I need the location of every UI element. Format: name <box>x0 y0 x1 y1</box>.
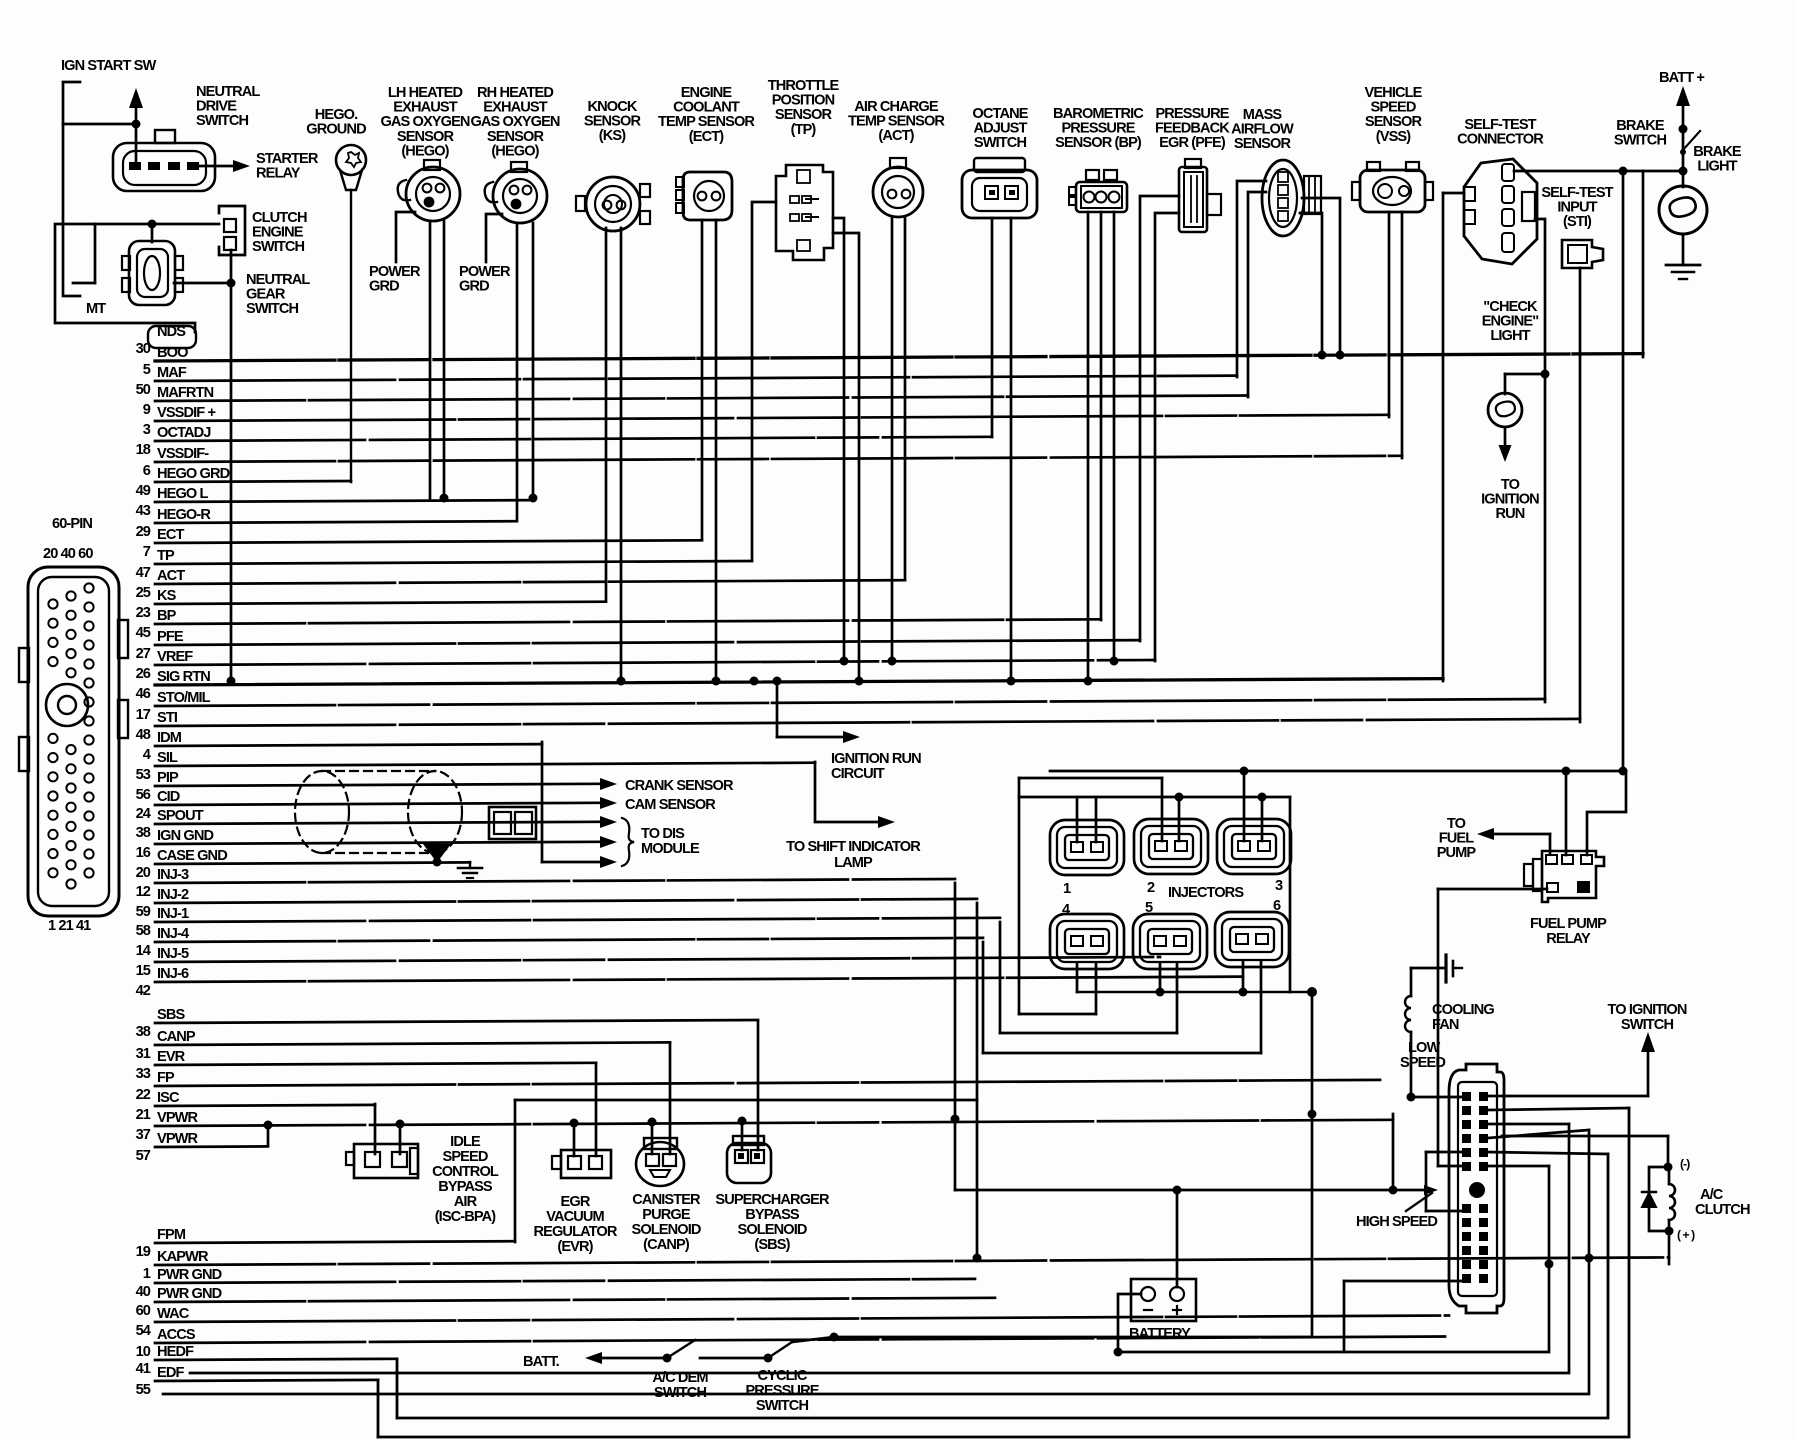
wire pin 47 TP <box>136 548 752 581</box>
capacitor cooling top <box>1446 955 1462 982</box>
node SIG RTN junction dots <box>750 677 759 686</box>
svg-text:EXHAUST: EXHAUST <box>483 100 547 116</box>
wire cooling left lower stub <box>1344 1281 1462 1352</box>
wire battery negative <box>1114 1294 1142 1357</box>
svg-text:SIG RTN: SIG RTN <box>157 669 210 685</box>
wire inj5 inj6 returns <box>983 922 1261 1053</box>
connector self-test <box>1464 159 1537 264</box>
svg-text:ACT: ACT <box>157 568 185 584</box>
wire pin 14 INJ-4 <box>136 926 983 959</box>
svg-text:VPWR: VPWR <box>157 1131 199 1147</box>
wire to fuel pump arrow <box>1477 828 1550 853</box>
wire ISC-BPA pins <box>375 1104 405 1154</box>
sensor TP throttle position <box>776 165 833 260</box>
svg-text:40: 40 <box>136 1284 151 1300</box>
svg-text:HEGO GRD: HEGO GRD <box>157 466 230 482</box>
svg-text:CANP: CANP <box>157 1029 196 1045</box>
wire pin 37 VPWR <box>136 1110 1393 1143</box>
label IGNITION RUN CIRCUIT <box>831 751 921 782</box>
svg-text:SWITCH: SWITCH <box>252 239 305 255</box>
lamp brake light <box>1659 152 1707 265</box>
svg-text:LIGHT: LIGHT <box>1697 159 1737 175</box>
svg-text:EDF: EDF <box>157 1365 184 1381</box>
svg-text:SENSOR: SENSOR <box>397 129 455 145</box>
svg-text:AIRFLOW: AIRFLOW <box>1231 122 1294 138</box>
svg-text:20 40 60: 20 40 60 <box>43 546 93 562</box>
svg-text:INJ-3: INJ-3 <box>157 867 189 883</box>
wire pin 1 KAPWR <box>143 1249 1669 1282</box>
svg-text:SUPERCHARGER: SUPERCHARGER <box>715 1192 830 1208</box>
wire brake to BOO row <box>1642 171 1645 357</box>
svg-text:INJ-4: INJ-4 <box>157 926 190 942</box>
svg-text:SBS: SBS <box>157 1007 185 1023</box>
wire batt arrow bottom <box>585 1352 672 1364</box>
svg-text:33: 33 <box>136 1066 151 1082</box>
wire clutch switch feed <box>73 220 219 284</box>
wire self-test top to brake node <box>1514 167 1688 176</box>
label FUEL PUMP RELAY <box>1530 916 1607 947</box>
sensor ECT <box>676 172 732 220</box>
svg-text:SENSOR: SENSOR <box>1234 136 1292 152</box>
connector self-test input STI <box>1562 240 1603 268</box>
wire injector 3 feed from relay node <box>1050 767 1628 842</box>
svg-text:FAN: FAN <box>1432 1017 1459 1033</box>
svg-text:KS: KS <box>157 588 177 604</box>
wire pin 25 ACT <box>136 568 905 601</box>
svg-text:IGNITION: IGNITION <box>1481 492 1539 508</box>
svg-text:58: 58 <box>136 923 151 939</box>
svg-text:SIL: SIL <box>157 750 178 766</box>
svg-text:SELF-TEST: SELF-TEST <box>1464 117 1536 133</box>
svg-text:SOLENOID: SOLENOID <box>737 1222 806 1238</box>
injector 4 <box>1050 914 1124 969</box>
arrow high speed <box>1406 1185 1438 1211</box>
svg-text:IGN START SW: IGN START SW <box>61 58 156 74</box>
connector 60-pin ECM <box>19 567 128 916</box>
wire injector bottom bus <box>1077 961 1317 997</box>
svg-text:EVR: EVR <box>157 1049 186 1065</box>
svg-text:SPEED: SPEED <box>1371 100 1416 116</box>
svg-text:7: 7 <box>143 544 151 560</box>
svg-text:GAS OXYGEN: GAS OXYGEN <box>470 114 559 130</box>
svg-text:OCTANE: OCTANE <box>972 106 1028 122</box>
svg-text:IDLE: IDLE <box>450 1134 481 1150</box>
svg-text:VACUUM: VACUUM <box>546 1209 604 1225</box>
svg-text:SENSOR: SENSOR <box>584 114 642 130</box>
svg-text:ENGINE": ENGINE" <box>1482 314 1539 330</box>
solenoid EVR connector <box>552 1150 611 1178</box>
svg-text:15: 15 <box>136 963 151 979</box>
svg-text:59: 59 <box>136 904 151 920</box>
label LOW SPEED <box>1400 1040 1445 1071</box>
wire LH HEGO signals <box>430 221 449 503</box>
svg-text:SOLENOID: SOLENOID <box>631 1222 700 1238</box>
wire pin 17 STO/MIL <box>136 690 1545 723</box>
wire LH HEGO power grd <box>396 212 415 262</box>
svg-text:GEAR: GEAR <box>246 287 286 303</box>
svg-text:SWITCH: SWITCH <box>756 1398 809 1414</box>
svg-text:AIR CHARGE: AIR CHARGE <box>854 99 939 115</box>
wire relay bottom to bus <box>1438 889 1547 1166</box>
connector neutral drive switch <box>113 130 215 191</box>
svg-text:RELAY: RELAY <box>256 166 301 182</box>
svg-text:BP: BP <box>157 608 177 624</box>
svg-text:SWITCH: SWITCH <box>1614 133 1667 149</box>
svg-text:(STI): (STI) <box>1563 214 1592 230</box>
svg-text:RELAY: RELAY <box>1546 931 1591 947</box>
wire EVR pins <box>570 1063 597 1156</box>
svg-text:PRESSURE: PRESSURE <box>745 1383 819 1399</box>
svg-text:57: 57 <box>136 1148 151 1164</box>
wire ACT signals <box>888 217 906 666</box>
svg-text:9: 9 <box>143 402 151 418</box>
wire cooling right riser 3 <box>163 1130 1594 1394</box>
svg-text:PRESSURE: PRESSURE <box>1155 106 1229 122</box>
svg-text:NEUTRAL: NEUTRAL <box>246 272 310 288</box>
solenoid CANP connector <box>636 1138 684 1186</box>
svg-text:GRD: GRD <box>459 279 489 295</box>
svg-text:(SBS): (SBS) <box>754 1237 790 1253</box>
wire CANP pins <box>648 1043 671 1154</box>
svg-text:(ECT): (ECT) <box>689 129 724 145</box>
svg-text:STI: STI <box>157 710 178 726</box>
svg-text:CRANK SENSOR: CRANK SENSOR <box>625 778 734 794</box>
svg-text:38: 38 <box>136 825 151 841</box>
svg-text:BOO: BOO <box>157 345 188 361</box>
sensor vehicle speed VSS <box>1352 162 1433 212</box>
wire pin 56 PIP <box>136 770 600 803</box>
svg-text:VREF: VREF <box>157 649 193 665</box>
svg-text:47: 47 <box>136 565 151 581</box>
svg-text:HEGO-R: HEGO-R <box>157 507 211 523</box>
arrow ign gnd to DIS <box>600 836 617 848</box>
switch cyclic pressure <box>768 1337 834 1358</box>
wire self-test right to STO/MIL <box>1535 219 1550 702</box>
svg-text:14: 14 <box>136 943 152 959</box>
svg-text:LIGHT: LIGHT <box>1490 328 1530 344</box>
svg-text:CLUTCH: CLUTCH <box>252 210 307 226</box>
svg-text:CLUTCH: CLUTCH <box>1695 1202 1750 1218</box>
svg-text:24: 24 <box>136 806 152 822</box>
svg-text:POWER: POWER <box>459 264 511 280</box>
label TO DIS MODULE <box>641 826 700 857</box>
svg-text:(KS): (KS) <box>599 128 626 144</box>
label A/C CLUTCH <box>1695 1187 1750 1218</box>
ground below brake light <box>1666 265 1700 279</box>
svg-text:GAS OXYGEN: GAS OXYGEN <box>380 114 469 130</box>
svg-text:OCTADJ: OCTADJ <box>157 425 211 441</box>
svg-text:37: 37 <box>136 1127 151 1143</box>
svg-text:(HEGO): (HEGO) <box>401 143 449 159</box>
svg-text:TEMP SENSOR: TEMP SENSOR <box>658 114 755 130</box>
wire MAF signals right <box>1300 198 1345 360</box>
battery box <box>1131 1279 1196 1321</box>
wire SBS pins <box>738 1021 759 1150</box>
svg-text:CANISTER: CANISTER <box>632 1192 701 1208</box>
svg-text:48: 48 <box>136 727 151 743</box>
svg-text:CAM SENSOR: CAM SENSOR <box>625 797 716 813</box>
svg-text:MT: MT <box>86 301 106 317</box>
wire cooling right riser 4 <box>190 1124 1569 1373</box>
wire pin 16 IGN GND <box>136 828 600 861</box>
wire pin 38 SPOUT <box>136 808 600 841</box>
svg-text:KNOCK: KNOCK <box>587 99 637 115</box>
svg-text:CASE GND: CASE GND <box>157 848 227 864</box>
sensor mass airflow <box>1262 160 1321 236</box>
svg-text:GRD: GRD <box>369 279 399 295</box>
svg-text:PFE: PFE <box>157 629 184 645</box>
svg-text:21: 21 <box>136 1107 151 1123</box>
svg-text:INJECTORS: INJECTORS <box>1168 885 1244 901</box>
svg-text:TP: TP <box>157 548 175 564</box>
svg-text:ENGINE: ENGINE <box>252 225 304 241</box>
shield dashed cable <box>295 771 462 853</box>
wire pin 55 EDF <box>136 1365 378 1398</box>
relay fuel pump <box>1524 851 1604 902</box>
svg-text:26: 26 <box>136 666 151 682</box>
svg-text:HEDF: HEDF <box>157 1344 194 1360</box>
svg-text:SELF-TEST: SELF-TEST <box>1541 185 1613 201</box>
wire pin 22 FP <box>136 1070 1380 1103</box>
svg-text:AIR: AIR <box>454 1194 478 1210</box>
wire RH HEGO signals <box>517 223 538 519</box>
sensor RH HEGO <box>485 162 547 223</box>
connector clutch engine switch <box>219 206 245 255</box>
svg-text:CID: CID <box>157 789 180 805</box>
wire pin 31 CANP <box>136 1029 670 1062</box>
solenoid ISC-BPA connector <box>346 1144 418 1178</box>
wire pin 41 HEDF <box>136 1344 397 1377</box>
wire mt bracket outer <box>55 224 195 332</box>
label COOLING FAN <box>1432 1002 1494 1033</box>
svg-text:SENSOR (BP): SENSOR (BP) <box>1055 135 1142 151</box>
label injector numbers <box>1062 878 1283 918</box>
wire VPWR to battery feed <box>1389 1114 1398 1195</box>
svg-text:IGN GND: IGN GND <box>157 828 213 844</box>
sensor knock sensor KS <box>576 177 650 231</box>
wire pin 48 STI <box>136 710 1580 743</box>
svg-text:MAFRTN: MAFRTN <box>157 385 214 401</box>
arrow crank sensor <box>600 778 617 790</box>
wire IDM to DIS <box>542 742 617 868</box>
wire pin 30 NDS <box>136 324 196 357</box>
svg-text:( + ): ( + ) <box>1677 1228 1695 1242</box>
svg-text:43: 43 <box>136 503 151 519</box>
label TO SHIFT INDICATOR LAMP <box>786 839 921 871</box>
wire to ignition switch <box>1488 1032 1655 1096</box>
wire pin 4 IDM <box>143 730 542 763</box>
wire FPM bracket <box>515 1100 977 1242</box>
svg-text:MODULE: MODULE <box>641 841 700 857</box>
solenoid SBS connector <box>727 1136 771 1183</box>
wire self-test left to SIG RTN <box>1443 193 1464 681</box>
svg-text:MASS: MASS <box>1243 107 1283 123</box>
wire pin 58 INJ-1 <box>136 906 1000 939</box>
wire EDF drop <box>377 1380 380 1437</box>
svg-text:SWITCH: SWITCH <box>196 113 249 129</box>
svg-text:A/C: A/C <box>1700 1187 1724 1203</box>
svg-text:WAC: WAC <box>157 1306 190 1322</box>
svg-text:NEUTRAL: NEUTRAL <box>196 84 260 100</box>
wire pin 5 BOO <box>143 345 1643 378</box>
svg-text:COOLANT: COOLANT <box>673 100 740 116</box>
brace DIS <box>622 818 634 866</box>
wire pin 18 OCTADJ <box>136 425 992 458</box>
wire AC clutch to KAPWR <box>1668 1231 1671 1264</box>
svg-text:(VSS): (VSS) <box>1376 129 1411 145</box>
svg-text:ADJUST: ADJUST <box>974 121 1028 137</box>
svg-text:RUN: RUN <box>1496 506 1525 522</box>
wire pin 38 SBS <box>136 1007 758 1040</box>
wire pin 10 ACCS <box>136 1327 1445 1360</box>
svg-text:TO IGNITION: TO IGNITION <box>1607 1002 1686 1018</box>
wire PFE signals <box>1140 196 1179 661</box>
svg-text:FP: FP <box>157 1070 175 1086</box>
svg-text:(CANP): (CANP) <box>643 1237 690 1253</box>
svg-text:20: 20 <box>136 865 151 881</box>
svg-text:49: 49 <box>136 483 151 499</box>
switch AC demand <box>667 1340 773 1363</box>
wire STI to pin 48 <box>1579 268 1582 722</box>
wire AC clutch feed <box>1502 1136 1673 1172</box>
svg-text:TO DIS: TO DIS <box>641 826 685 842</box>
svg-text:ECT: ECT <box>157 527 184 543</box>
svg-text:IGNITION RUN: IGNITION RUN <box>831 751 921 767</box>
svg-text:STO/MIL: STO/MIL <box>157 690 211 706</box>
wire pin 24 CID <box>136 789 600 822</box>
svg-text:ENGINE: ENGINE <box>681 85 733 101</box>
svg-text:HIGH SPEED: HIGH SPEED <box>1356 1214 1437 1230</box>
svg-text:5: 5 <box>143 362 151 378</box>
svg-text:EGR: EGR <box>561 1194 591 1210</box>
node VPWR dots <box>951 1115 960 1124</box>
svg-text:SENSOR: SENSOR <box>775 107 833 123</box>
svg-text:10: 10 <box>136 1344 151 1360</box>
wire ISC row to cyclic node <box>830 992 1317 1342</box>
svg-text:23: 23 <box>136 605 151 621</box>
svg-text:INJ-2: INJ-2 <box>157 887 189 903</box>
ground symbol HEGO GROUND teardrop <box>336 145 366 482</box>
pins 60-pin connector <box>48 583 93 888</box>
wire pin 53 SIL <box>136 750 815 783</box>
svg-text:PUMP: PUMP <box>1437 845 1477 861</box>
svg-text:18: 18 <box>136 442 151 458</box>
connector neutral gear switch <box>122 241 183 305</box>
wire pin 27 PFE <box>136 629 1140 662</box>
svg-text:TEMP SENSOR: TEMP SENSOR <box>848 114 945 130</box>
wire HEDF drop <box>396 1359 399 1418</box>
wire pin 60 PWR GND <box>136 1286 995 1319</box>
svg-text:42: 42 <box>136 983 151 999</box>
svg-text:VSSDIF-: VSSDIF- <box>157 446 209 462</box>
svg-text:EXHAUST: EXHAUST <box>393 100 457 116</box>
svg-text:(-): (-) <box>1680 1157 1690 1171</box>
svg-text:1: 1 <box>143 1266 151 1282</box>
svg-text:TO SHIFT INDICATOR: TO SHIFT INDICATOR <box>786 839 921 855</box>
svg-text:MAF: MAF <box>157 365 187 381</box>
svg-text:56: 56 <box>136 787 151 803</box>
wire pin 40 PWR GND <box>136 1267 975 1300</box>
connector cooling fan <box>1449 1064 1504 1313</box>
svg-text:REGULATOR: REGULATOR <box>534 1224 618 1240</box>
coil A/C clutch <box>1665 1167 1676 1236</box>
svg-text:ISC: ISC <box>157 1090 180 1106</box>
inductor low speed coil <box>1405 968 1462 1102</box>
wire pin 29 HEGO-R <box>136 507 517 540</box>
svg-text:CIRCUIT: CIRCUIT <box>831 766 885 782</box>
svg-text:SPEED: SPEED <box>1400 1055 1445 1071</box>
lamp check engine <box>1488 393 1522 427</box>
wire BP signals <box>1084 212 1119 686</box>
injector 5 <box>1133 914 1207 969</box>
arrow cam sensor <box>600 797 617 809</box>
svg-text:FUEL PUMP: FUEL PUMP <box>1530 916 1607 932</box>
svg-text:VSSDIF +: VSSDIF + <box>157 405 215 421</box>
wire pin 49 HEGO GRD <box>136 466 351 499</box>
wire SIL shift indicator <box>815 762 895 828</box>
wire pin 6 VSSDIF- <box>143 446 1402 479</box>
svg-text:BAROMETRIC: BAROMETRIC <box>1053 106 1144 122</box>
wire MAF signals left <box>1237 181 1266 397</box>
svg-text:VEHICLE: VEHICLE <box>1365 85 1423 101</box>
wire pin 57 VPWR <box>136 1131 268 1164</box>
wire cooling right riser 2 <box>397 1152 1608 1418</box>
wire starter relay arrow <box>199 160 250 172</box>
label TO IGNITION SWITCH <box>1607 1002 1686 1033</box>
svg-text:POWER: POWER <box>369 264 421 280</box>
wire injector top bus <box>1019 778 1290 1014</box>
svg-text:LOW: LOW <box>1408 1040 1440 1056</box>
wire pin 23 KS <box>136 588 606 621</box>
svg-text:46: 46 <box>136 686 151 702</box>
sensor ACT <box>873 158 923 217</box>
svg-text:(ACT): (ACT) <box>878 128 914 144</box>
svg-text:INPUT: INPUT <box>1557 200 1597 216</box>
wire STO/MIL lamp branch <box>1505 374 1545 394</box>
wire cooling bottom stub <box>1118 1166 1554 1352</box>
wire neutral gear to SIG RTN <box>227 283 236 686</box>
svg-text:BATT.: BATT. <box>523 1354 560 1370</box>
svg-text:5: 5 <box>1145 900 1153 916</box>
ground case gnd earth <box>458 862 482 878</box>
sensor BP barometric pressure <box>1069 170 1127 212</box>
svg-text:TO: TO <box>1501 477 1520 493</box>
svg-text:50: 50 <box>136 382 151 398</box>
svg-text:19: 19 <box>136 1244 151 1260</box>
svg-text:VPWR: VPWR <box>157 1110 199 1126</box>
svg-text:TO: TO <box>1447 816 1466 832</box>
svg-text:BYPASS: BYPASS <box>438 1179 493 1195</box>
arrow spout to DIS <box>600 816 617 828</box>
svg-text:(EVR): (EVR) <box>557 1239 593 1255</box>
switch brake switch <box>1680 129 1700 155</box>
svg-text:FEEDBACK: FEEDBACK <box>1155 121 1230 137</box>
wire ign to NDS arrow <box>63 88 143 165</box>
svg-text:INJ-6: INJ-6 <box>157 966 189 982</box>
svg-text:ACCS: ACCS <box>157 1327 196 1343</box>
svg-text:RH HEATED: RH HEATED <box>477 85 553 101</box>
svg-text:17: 17 <box>136 707 151 723</box>
wire KS signals <box>606 228 626 686</box>
ground shield triangle <box>425 845 449 867</box>
wire pin 7 ECT <box>143 527 702 560</box>
wire pin 21 ISC <box>136 1090 375 1123</box>
wire VSS signals <box>1389 212 1402 458</box>
wire pin 33 EVR <box>136 1049 596 1082</box>
svg-text:45: 45 <box>136 625 151 641</box>
svg-text:(TP): (TP) <box>791 122 817 138</box>
svg-text:LAMP: LAMP <box>834 855 873 871</box>
